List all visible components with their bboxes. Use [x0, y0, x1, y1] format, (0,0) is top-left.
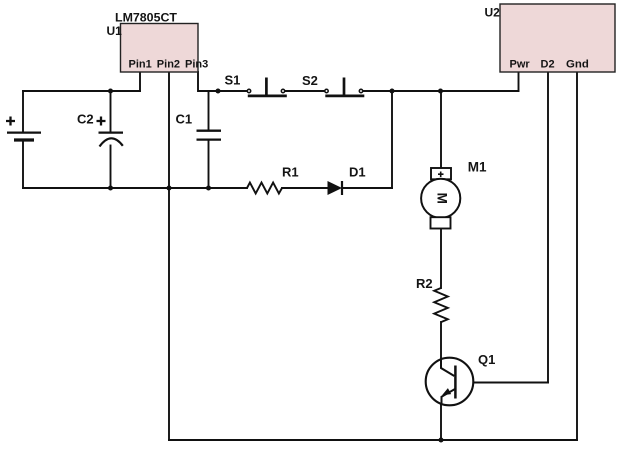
svg-text:U2: U2: [485, 6, 501, 20]
wire R1 to D1: [282, 187, 327, 189]
switch S1: [225, 72, 287, 96]
wire Q1 emitter to ground rail: [440, 396, 442, 440]
wire U1 Pin3 to S1: [198, 72, 247, 91]
wire U2 D2 vertical: [547, 72, 549, 383]
wire bottom-left rail: [23, 187, 247, 189]
wire bottom ground rail: [169, 439, 577, 441]
wire top rail to motor M1: [440, 91, 442, 171]
svg-text:M1: M1: [468, 159, 487, 174]
motor M1: [421, 159, 487, 228]
svg-text:S1: S1: [225, 72, 241, 87]
svg-text:C2: C2: [77, 112, 94, 127]
svg-text:Pin2: Pin2: [157, 59, 180, 71]
wire U1 Pin2 vertical to ground rail: [168, 72, 170, 440]
junction node after Pin3: [216, 89, 221, 94]
capacitor C1: [176, 112, 222, 140]
svg-text:C1: C1: [176, 112, 193, 127]
battery V1: [6, 117, 41, 141]
wire motor M1 to R2: [440, 218, 442, 288]
wire top-left rail: [23, 90, 140, 92]
svg-text:Q1: Q1: [478, 352, 495, 367]
IC U1 voltage regulator LM7805CT: [107, 11, 209, 73]
wire Q1 base to D2: [456, 382, 549, 384]
switch S2: [302, 73, 364, 96]
wire D1 to branch corner: [343, 187, 393, 189]
svg-text:R2: R2: [416, 276, 433, 291]
wire C1 bottom stub: [208, 140, 210, 188]
svg-text:Pin1: Pin1: [129, 59, 152, 71]
wire C1 top stub: [208, 91, 210, 130]
svg-text:Pin3: Pin3: [185, 59, 208, 71]
IC U2 controller box: [485, 4, 616, 72]
wire C2 bottom stub: [110, 146, 112, 189]
svg-text:D1: D1: [349, 165, 366, 180]
svg-text:D2: D2: [541, 59, 555, 71]
junction C2 top: [108, 89, 113, 94]
wire S1 to S2: [286, 90, 325, 92]
svg-text:U1: U1: [107, 24, 123, 38]
wire battery negative to bottom rail: [22, 141, 24, 189]
capacitor C2: [77, 112, 123, 147]
junction C1 bottom: [206, 186, 211, 191]
junction Pin2 bottom rail: [167, 186, 172, 191]
svg-text:M: M: [434, 193, 449, 204]
svg-text:S2: S2: [302, 73, 318, 88]
resistor R1: [247, 165, 299, 194]
wire S2 to U2 Pwr: [364, 90, 519, 92]
svg-text:R1: R1: [282, 165, 299, 180]
wire battery positive to top rail: [22, 91, 24, 132]
junction motor top: [438, 89, 443, 94]
wire C2 top stub: [110, 91, 112, 132]
svg-text:Gnd: Gnd: [566, 59, 589, 71]
wire U1 Pin1 stub: [139, 72, 141, 91]
wire U2 Pwr stub: [518, 72, 520, 91]
transistor Q1: [426, 352, 496, 405]
resistor R2: [416, 276, 448, 322]
wire U2 Gnd vertical: [576, 72, 578, 440]
diode D1: [328, 165, 366, 196]
junction D1 branch top: [390, 89, 395, 94]
junction emitter ground rail: [439, 438, 444, 443]
svg-text:LM7805CT: LM7805CT: [115, 11, 177, 25]
svg-text:Pwr: Pwr: [510, 59, 531, 71]
wire R2 to Q1 collector: [440, 322, 442, 368]
wire D1 branch vertical: [391, 91, 393, 188]
junction C2 bottom: [108, 186, 113, 191]
